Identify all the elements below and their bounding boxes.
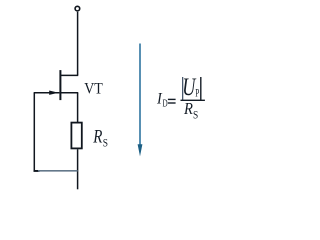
transistor VT source tap wire <box>61 92 78 94</box>
equation: equals upper bar <box>168 99 176 100</box>
transistor VT gate wire <box>34 92 60 94</box>
svg-text:VT: VT <box>84 80 103 97</box>
equation: equals lower bar <box>168 102 176 103</box>
equation: fraction bar <box>181 100 205 101</box>
svg-text:R: R <box>183 100 193 118</box>
transistor VT drain tap wire <box>61 74 78 76</box>
equation: numerator left abs bar <box>182 77 183 100</box>
transistor VT gate arrowhead <box>49 91 58 95</box>
current direction arrow shaft <box>139 44 141 147</box>
wire: terminal to drain corner <box>77 12 79 76</box>
wire: resistor to bottom terminal <box>77 149 79 189</box>
wire: gate feedback vertical <box>33 93 35 171</box>
terminal node (drain output) <box>75 6 80 11</box>
transistor VT (N-JFET) channel bar <box>59 70 61 100</box>
svg-text:S: S <box>193 110 198 122</box>
svg-text:P: P <box>195 87 199 100</box>
wire: source to resistor <box>77 93 79 122</box>
wire: bottom horizontal (grey) <box>38 170 78 172</box>
current direction arrowhead <box>138 144 143 156</box>
wire junction corner stub <box>34 170 40 172</box>
equation: numerator right abs bar <box>200 77 201 100</box>
svg-text:R: R <box>92 126 103 147</box>
resistor RS body <box>71 123 81 149</box>
svg-text:I: I <box>156 91 163 108</box>
svg-text:U: U <box>182 73 196 100</box>
svg-text:S: S <box>103 137 108 150</box>
svg-text:D: D <box>163 97 168 109</box>
